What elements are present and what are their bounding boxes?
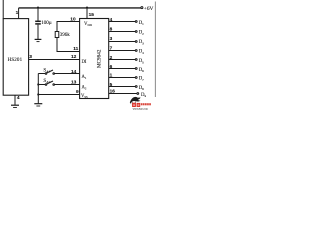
svg-text:16: 16 xyxy=(110,89,116,94)
svg-text:A2: A2 xyxy=(82,86,87,91)
wire IC pin9 VSS xyxy=(38,94,79,96)
wire IC pin8 to terminal D2 xyxy=(109,31,136,33)
svg-text:14: 14 xyxy=(71,69,77,75)
svg-text:12: 12 xyxy=(71,54,77,60)
wire HS201 pin3 to IC pin12 xyxy=(29,59,80,61)
svg-text:10: 10 xyxy=(70,17,76,23)
node pin15 junction xyxy=(86,7,88,9)
wire IC pin1 to terminal D7 xyxy=(109,77,136,79)
svg-text:D2: D2 xyxy=(139,31,144,36)
svg-text:6: 6 xyxy=(110,64,113,69)
node SA2 junction xyxy=(37,83,39,85)
svg-text:1: 1 xyxy=(16,10,19,16)
left border line xyxy=(2,0,4,19)
wire HS201 pin4 xyxy=(14,95,16,105)
wire IC pin5 to terminal D8 xyxy=(109,86,136,88)
svg-text:9: 9 xyxy=(76,89,79,95)
terminal D4 xyxy=(135,50,137,52)
svg-text:www.dzsc.com: www.dzsc.com xyxy=(133,107,148,110)
svg-text:D4: D4 xyxy=(139,50,144,55)
svg-text:D3: D3 xyxy=(139,40,144,45)
svg-text:396k: 396k xyxy=(60,33,71,38)
svg-text:7: 7 xyxy=(110,46,113,51)
svg-text:D6: D6 xyxy=(139,68,144,73)
svg-text:D5: D5 xyxy=(139,59,144,64)
ground under capacitor xyxy=(35,38,42,40)
wire +6V rail xyxy=(19,7,141,9)
svg-text:HS201: HS201 xyxy=(8,58,23,63)
svg-text:4: 4 xyxy=(17,95,20,101)
watermark text small (red blocks) xyxy=(141,103,151,105)
wire HS201 pin1 riser xyxy=(18,8,20,19)
node pin9 junction xyxy=(37,93,39,95)
terminal D6 xyxy=(135,68,137,70)
terminal D8 xyxy=(135,86,137,88)
terminal D3 xyxy=(135,41,137,43)
terminal D9 xyxy=(137,93,139,95)
svg-text:+6V: +6V xyxy=(144,6,154,12)
svg-text:D8: D8 xyxy=(139,86,144,91)
wire cap drop xyxy=(37,8,39,21)
svg-text:3: 3 xyxy=(29,54,32,60)
wire IC pin16 to terminal D9 xyxy=(109,93,137,95)
wire cap to ground xyxy=(37,25,39,39)
svg-text:8: 8 xyxy=(110,27,113,32)
svg-text:D1: D1 xyxy=(139,21,144,26)
terminal D7 xyxy=(135,77,137,79)
wire IC pin2 to terminal D5 xyxy=(109,59,136,61)
svg-text:MC9842: MC9842 xyxy=(97,49,103,68)
wire pin15 drop xyxy=(86,8,88,19)
svg-text:D9: D9 xyxy=(141,93,146,98)
switch SA2 xyxy=(38,84,45,86)
right border line xyxy=(154,2,156,98)
wire IC pin4 to terminal D1 xyxy=(109,21,136,23)
terminal +6V xyxy=(141,7,143,9)
node cap junction xyxy=(37,7,39,9)
svg-text:VSS: VSS xyxy=(81,94,88,99)
wire resistor bottom to IC pin11 xyxy=(57,38,80,52)
wire IC pin7 to terminal D4 xyxy=(109,50,136,52)
sensor HS201 box xyxy=(3,19,28,96)
capacitor C1 100u plates xyxy=(35,20,41,22)
wire SA2 to IC pin13 xyxy=(55,84,80,86)
ground under HS201 xyxy=(11,104,19,106)
watermark text weiku (drawn red glyph blocks) xyxy=(132,103,140,107)
svg-text:DI: DI xyxy=(82,60,87,65)
wire switch common vertical xyxy=(37,74,39,104)
svg-text:100µ: 100µ xyxy=(41,21,52,26)
svg-text:5: 5 xyxy=(110,82,113,87)
svg-text:4: 4 xyxy=(110,17,113,22)
wire IC pin6 to terminal D6 xyxy=(109,68,136,70)
switch SA1 xyxy=(38,73,45,75)
svg-text:VDD: VDD xyxy=(84,22,93,27)
IC U1 box xyxy=(80,19,109,99)
svg-text:2: 2 xyxy=(110,55,113,60)
watermark bird logo xyxy=(130,97,141,105)
svg-text:15: 15 xyxy=(89,12,95,18)
svg-text:13: 13 xyxy=(71,79,77,85)
terminal D5 xyxy=(135,59,137,61)
svg-text:A1: A1 xyxy=(82,75,87,80)
wire IC pin3 to terminal D3 xyxy=(109,41,136,43)
ground under switches xyxy=(34,103,42,105)
svg-text:3: 3 xyxy=(110,36,113,41)
svg-text:1: 1 xyxy=(110,73,113,78)
terminal D1 xyxy=(135,21,137,23)
wire SA1 to IC pin14 xyxy=(55,73,80,75)
terminal D2 xyxy=(135,31,137,33)
svg-text:11: 11 xyxy=(73,46,78,52)
wire resistor top to IC pin10 xyxy=(57,22,80,32)
resistor R 396k xyxy=(55,32,59,38)
svg-text:D7: D7 xyxy=(139,77,144,82)
